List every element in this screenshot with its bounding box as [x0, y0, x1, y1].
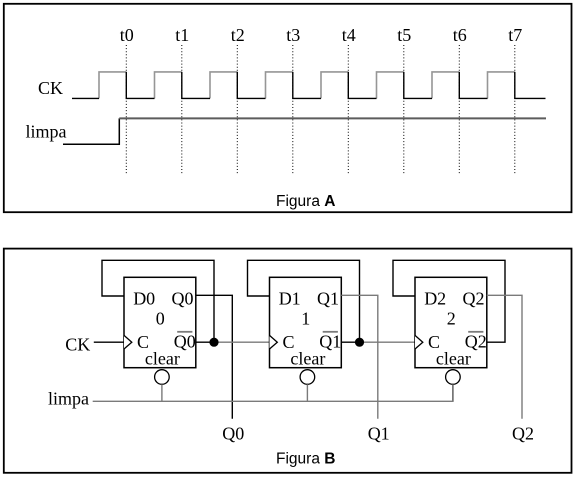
junction dot U1 — [355, 338, 364, 347]
flip-flop U2 feedback loop wire — [393, 260, 505, 342]
svg-text:clear: clear — [436, 349, 471, 369]
svg-text:CK: CK — [38, 78, 63, 98]
svg-text:1: 1 — [301, 308, 310, 328]
svg-text:t5: t5 — [397, 25, 411, 45]
svg-text:Q1: Q1 — [317, 289, 339, 309]
U1 clear bubble — [300, 370, 315, 385]
dotted gridline t0 — [125, 45, 127, 175]
svg-text:Q2: Q2 — [512, 424, 534, 444]
wire CK falling edge t1 + low segment — [182, 72, 210, 99]
svg-text:t1: t1 — [175, 25, 189, 45]
frame figura A — [4, 4, 572, 212]
U2 clear bubble — [446, 370, 461, 385]
U0 overline of Q0-bar — [177, 331, 192, 333]
wire CK pulse 2 rising edge + high segment — [155, 72, 182, 99]
svg-text:limpa: limpa — [26, 121, 67, 141]
limpa waveform: gray high segment — [119, 117, 546, 119]
flip-flop U0 box — [124, 277, 196, 367]
wire CK falling edge t5 + low segment — [404, 72, 432, 99]
U1 clock chevron — [270, 335, 278, 349]
svg-text:Figura A: Figura A — [276, 193, 335, 210]
svg-text:t6: t6 — [453, 25, 467, 45]
dotted gridline t6 — [458, 45, 460, 175]
svg-text:clear: clear — [145, 349, 180, 369]
limpa waveform: black low segment + rising edge — [63, 118, 119, 144]
CK input wire — [94, 341, 124, 343]
U0 clock chevron — [124, 335, 132, 349]
wire Q1bar to U2 clock (gray) — [360, 341, 416, 343]
flip-flop U1 feedback loop wire — [248, 260, 360, 338]
dotted gridline t7 — [514, 45, 516, 175]
svg-text:Q2: Q2 — [463, 289, 485, 309]
U2 clear stem wire — [452, 384, 454, 401]
svg-text:D0: D0 — [133, 289, 155, 309]
wire CK pulse 1 rising edge + high segment — [99, 72, 126, 99]
wire CK pulse 3 rising edge + high segment — [210, 72, 237, 99]
U1 Qbar output stub — [341, 341, 359, 343]
flip-flop U2 box — [415, 277, 487, 367]
U1 overline of Q1-bar — [323, 331, 338, 333]
svg-text:t3: t3 — [286, 25, 300, 45]
svg-text:Q0: Q0 — [172, 289, 194, 309]
dotted gridline t3 — [292, 45, 294, 175]
svg-text:2: 2 — [447, 308, 456, 328]
U1 Q1 output wire to bottom (gray) — [341, 295, 378, 419]
wire CK pulse 7 rising edge + high segment — [432, 72, 459, 99]
U2 overline of Q2-bar — [468, 331, 483, 333]
wire CK falling edge t6 + low segment — [459, 72, 487, 99]
wire CK falling edge t7 + final low segment — [515, 72, 546, 99]
svg-text:limpa: limpa — [48, 389, 89, 409]
svg-text:Q0: Q0 — [222, 424, 244, 444]
svg-text:D1: D1 — [279, 289, 301, 309]
wire CK pulse 8 rising edge + high segment — [488, 72, 515, 99]
wire CK pulse 4 rising edge + high segment — [266, 72, 293, 99]
frame figura B — [4, 249, 572, 473]
dotted gridline t2 — [236, 45, 238, 175]
U2 clock chevron — [415, 335, 423, 349]
svg-text:0: 0 — [156, 308, 165, 328]
wire Q0bar to U1 clock (gray) — [214, 341, 270, 343]
U0 clear bubble — [155, 370, 170, 385]
flip-flop U0 feedback loop wire — [102, 260, 214, 338]
U2 Q2 output wire to bottom (gray) — [487, 295, 522, 419]
svg-text:CK: CK — [65, 334, 90, 354]
svg-text:t7: t7 — [508, 25, 522, 45]
wire CK pulse 6 rising edge + high segment — [377, 72, 404, 99]
U1 clear stem wire — [306, 384, 308, 401]
wire CK falling edge t2 + low segment — [237, 72, 265, 99]
dotted gridline t1 — [181, 45, 183, 175]
wire CK initial low segment — [72, 97, 99, 99]
U0 Qbar output stub — [196, 341, 214, 343]
svg-text:Q1: Q1 — [368, 424, 390, 444]
limpa wire (gray) — [93, 384, 453, 401]
U0 clear stem wire — [161, 384, 163, 401]
wire CK falling edge t0 + low segment — [126, 72, 154, 99]
svg-text:clear: clear — [290, 349, 325, 369]
wire CK falling edge t3 + low segment — [293, 72, 321, 99]
svg-text:D2: D2 — [424, 289, 446, 309]
dotted gridline t5 — [403, 45, 405, 175]
wire CK pulse 5 rising edge + high segment — [321, 72, 348, 99]
wire CK falling edge t4 + low segment — [348, 72, 376, 99]
junction dot U0 — [209, 338, 218, 347]
dotted gridline t4 — [347, 45, 349, 175]
svg-text:t0: t0 — [120, 25, 134, 45]
svg-text:t4: t4 — [342, 25, 356, 45]
U0 Q0 output wire to bottom — [196, 295, 233, 419]
svg-text:Figura B: Figura B — [276, 451, 335, 468]
svg-text:t2: t2 — [231, 25, 245, 45]
flip-flop U1 box — [270, 277, 342, 367]
